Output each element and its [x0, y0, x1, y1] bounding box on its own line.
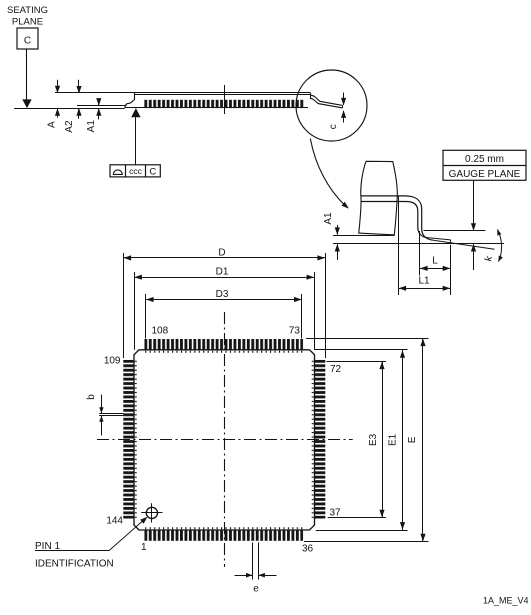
- dimension D1: [134, 272, 136, 350]
- dimension e extension lines: [252, 543, 254, 580]
- detail: extension line lead tip: [450, 245, 452, 295]
- angle k arc with arrows: [498, 230, 502, 262]
- datum triangle under first lead: [131, 108, 140, 117]
- svg-text:109: 109: [104, 356, 121, 367]
- svg-text:C: C: [24, 36, 31, 47]
- top view: top row of pins 108..73: [144, 339, 303, 350]
- dimension c lower arrow: [343, 111, 345, 123]
- svg-text:b: b: [86, 394, 97, 400]
- dimension E3 extension lines: [326, 361, 386, 363]
- svg-text:PLANE: PLANE: [12, 17, 43, 28]
- detail: extension line body edge for L1: [398, 197, 400, 296]
- dimension E1: [402, 350, 404, 530]
- dimension b arrows: [101, 395, 103, 414]
- svg-text:E: E: [407, 436, 418, 443]
- side view: body left edge: [134, 93, 136, 100]
- side view: body right edge: [310, 93, 312, 99]
- seating plane line: [14, 108, 125, 110]
- curved callout arrow to lead detail: [310, 139, 345, 206]
- dimension b extension lines: [99, 413, 123, 415]
- detail: seating plane line: [333, 243, 504, 245]
- dimension D: [123, 253, 125, 358]
- top view: left column of pins 109..144: [123, 360, 134, 519]
- svg-text:36: 36: [302, 544, 314, 555]
- gauge plane dimension line 0.25mm: [473, 180, 475, 230]
- svg-text:108: 108: [152, 326, 169, 337]
- dimension L: [420, 268, 451, 270]
- leader from datum box to seating plane triangle: [26, 49, 28, 100]
- dimension E extension lines: [306, 338, 429, 340]
- detail: body bottom line extended: [333, 235, 394, 237]
- svg-text:C: C: [149, 167, 156, 178]
- svg-text:D: D: [218, 247, 225, 258]
- svg-text:SEATING: SEATING: [7, 5, 48, 16]
- feature control frame ccc C: [110, 165, 160, 177]
- leader to flatness frame: [135, 117, 137, 165]
- pin lead tails crossing body outline: [144, 351, 303, 353]
- svg-text:1A_ME_V4: 1A_ME_V4: [483, 596, 529, 606]
- svg-text:D3: D3: [216, 289, 229, 300]
- svg-text:IDENTIFICATION: IDENTIFICATION: [35, 558, 114, 569]
- pin 1 identification circle with crosshair: [146, 507, 157, 518]
- detail: body outline with wavy edges: [359, 161, 398, 235]
- svg-text:L1: L1: [418, 275, 430, 286]
- svg-text:1: 1: [141, 542, 147, 553]
- svg-text:144: 144: [106, 516, 123, 527]
- dimension E1 extension lines: [315, 349, 408, 351]
- svg-text:37: 37: [330, 508, 342, 519]
- detail: lead upper outline: [361, 196, 433, 240]
- side view: body bottom extension line: [77, 105, 127, 107]
- dimension c upper arrow: [343, 93, 345, 106]
- detail balloon circle: [296, 70, 367, 141]
- side view: leads hatch band: [143, 100, 304, 108]
- side view: right lead profile top: [311, 95, 343, 105]
- svg-text:PIN 1: PIN 1: [35, 541, 60, 552]
- vertical centerline dash-dot: [224, 312, 226, 567]
- svg-text:L: L: [432, 256, 438, 267]
- dimension L1: [398, 288, 450, 290]
- detail: extension line foot start for L: [419, 231, 421, 276]
- svg-text:0.25 mm: 0.25 mm: [465, 154, 504, 165]
- detail: lead tip: [450, 240, 452, 243]
- dimension E3: [382, 361, 384, 517]
- svg-text:72: 72: [330, 364, 342, 375]
- horizontal centerline dash-dot: [97, 439, 353, 441]
- pin1 leader line: [35, 550, 109, 552]
- dimension e arrows: [235, 575, 253, 577]
- svg-text:73: 73: [289, 326, 301, 337]
- svg-text:A1: A1: [86, 120, 97, 133]
- gauge plane short line: [424, 230, 486, 232]
- datum box C: [17, 28, 38, 49]
- side view: package top second line: [134, 94, 311, 96]
- svg-text:E3: E3: [368, 433, 379, 446]
- svg-text:c: c: [328, 124, 339, 129]
- svg-text:A: A: [46, 121, 57, 128]
- seating plane flatness symbol: [113, 170, 122, 175]
- svg-text:A1: A1: [323, 212, 334, 225]
- detail dimension A1: [337, 225, 339, 235]
- side view: right lead profile bottom: [311, 98, 343, 108]
- detail: foot bottom / k construction line: [433, 240, 494, 249]
- dimension A: [57, 80, 59, 93]
- side view: package top extension line: [55, 92, 311, 94]
- dimension A2: [78, 80, 80, 93]
- svg-text:ccc: ccc: [129, 166, 143, 176]
- detail: foot top line: [427, 238, 450, 240]
- svg-text:A2: A2: [64, 120, 75, 133]
- dimension E: [422, 338, 424, 541]
- top view: right column of pins 72..37: [315, 360, 326, 519]
- side view: left lead bend: [125, 100, 134, 108]
- filled datum triangle on seating plane: [22, 99, 31, 108]
- side view: right lead tip: [342, 105, 344, 108]
- dimension D3: [145, 294, 147, 339]
- top view: bottom row of pins 1..36: [144, 530, 303, 541]
- gauge plane dimension box 0.25 mm: [443, 150, 526, 180]
- side view: leads bottom seating line: [125, 107, 308, 109]
- detail: lead lower outline: [361, 202, 427, 238]
- svg-text:e: e: [253, 584, 259, 595]
- dimension A1: [98, 100, 100, 106]
- top view: package body outline with chamfered corners: [134, 350, 315, 530]
- svg-text:GAUGE PLANE: GAUGE PLANE: [449, 169, 521, 180]
- svg-text:D1: D1: [216, 267, 229, 278]
- side view: center mark line: [224, 85, 226, 114]
- svg-text:E1: E1: [388, 433, 399, 446]
